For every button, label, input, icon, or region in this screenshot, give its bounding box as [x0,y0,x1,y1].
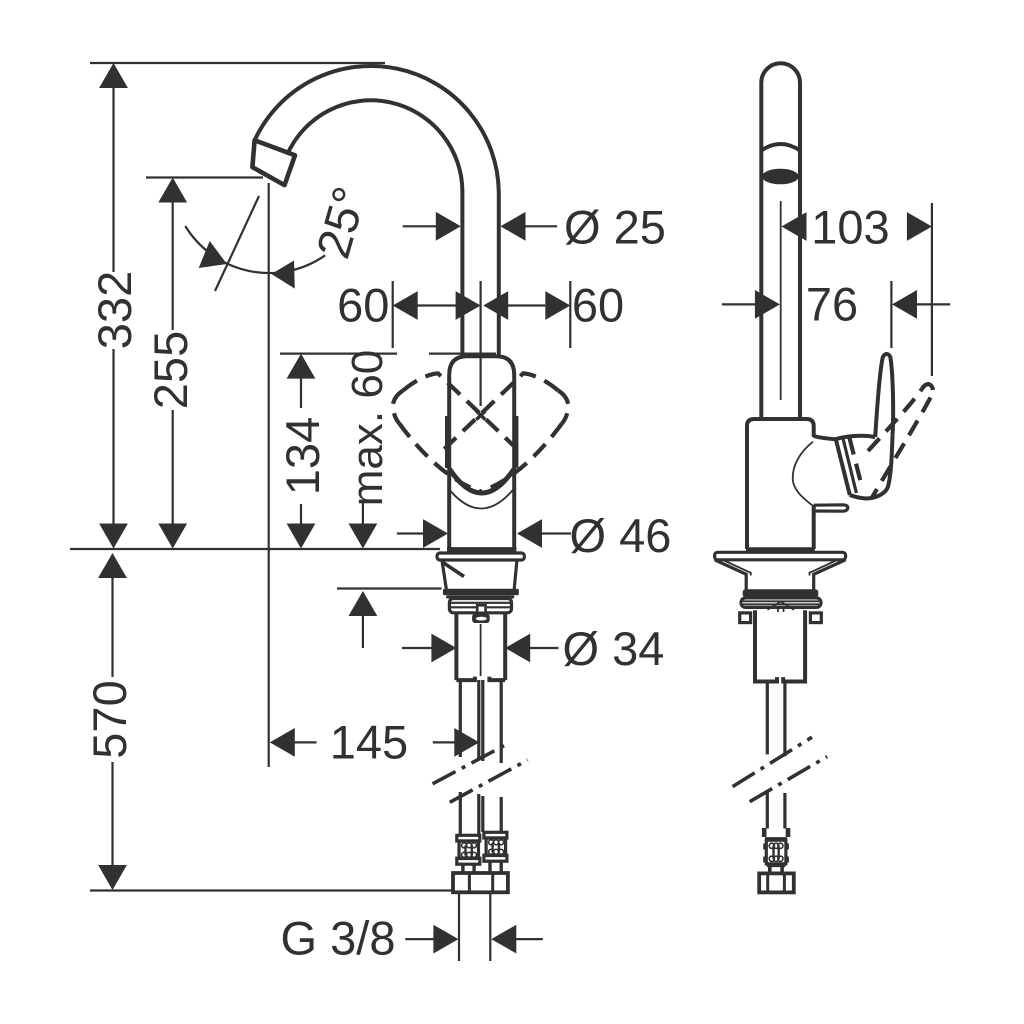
145 vertical extension line [268,183,270,767]
hose connector block front [472,614,490,623]
svg-text:G 3/8: G 3/8 [281,912,396,965]
right hose lower [483,796,501,832]
shank bottom edge with notch [456,677,505,681]
dim G38 [281,891,543,965]
dashed handle right tip cap [558,391,568,424]
dashed handle right petal top edge [444,373,558,449]
locknut front [449,599,511,613]
locknut center tab [477,605,485,613]
front body bottom edge [447,547,516,552]
left hose lower [460,792,479,835]
side fitting collar [767,864,786,867]
svg-text:60: 60 [572,279,624,332]
side escutcheon cone inner lines [724,561,836,576]
handle horn (neutral lever) [875,354,893,437]
escutcheon shine mark [443,563,464,577]
side fitting braid [763,840,789,864]
dim O25 [403,201,666,254]
dim 134 [276,354,329,549]
side locknut chevron verticals [778,608,784,612]
shank left wall front [454,613,458,680]
svg-text:max. 60: max. 60 [343,350,392,507]
side supply nut [759,873,794,892]
locknut rib 2 [451,606,476,608]
handle skirt side right (solid) [514,416,519,468]
dashed swung lever side lower edge [872,398,931,498]
deck line [70,548,440,550]
side body right wall lower [812,506,816,550]
dim 76 [722,278,950,349]
svg-text:103: 103 [811,201,889,254]
side locknut ring [741,598,821,608]
side escutcheon cone [715,560,846,590]
dashed collar echo [850,438,863,489]
locknut rib 3 [487,606,510,608]
svg-text:Ø 34: Ø 34 [563,622,665,675]
dim 570 [83,553,136,890]
front escutcheon cone [442,561,517,590]
extension line body top 134 [280,353,496,355]
dim 25deg [185,181,376,291]
supply nut pair front [453,873,508,892]
dim O34 [402,622,664,675]
dim O46 [397,509,672,562]
handle grip [836,435,893,498]
pipe centerline front [480,281,482,406]
hose end baseline [90,889,454,891]
left hose fitting flange bottom [457,858,480,864]
shank right wall front [503,613,507,680]
side escutcheon plate [715,552,846,560]
shank centerline [480,624,482,676]
svg-text:60: 60 [337,279,389,332]
right hose upper [483,680,501,763]
side fitting legs [768,867,772,874]
svg-text:570: 570 [83,680,136,758]
spout outer wall arc [255,66,499,192]
side fitting band [765,837,787,840]
dim max60 [343,350,392,648]
side fitting side tabs [762,828,767,837]
socket top edge [814,436,836,439]
extension line outlet 255 [146,176,263,178]
side locknut ring ribs [743,601,819,604]
right hose fitting flange bottom [484,855,507,861]
socket lower tab [814,505,848,511]
locknut rib 1 [451,602,510,604]
front escutcheon plate [437,553,524,560]
handle skirt bottom thick arc [450,469,515,493]
aerator sleeve [252,140,295,185]
svg-text:255: 255 [144,331,197,409]
dashed handle right bottom sweep [480,424,562,492]
side escutcheon dark band [743,589,819,597]
left hose fitting legs [461,864,464,873]
side spout bend line [761,144,800,151]
dashed handle left bottom sweep [399,424,481,492]
svg-text:145: 145 [330,716,408,769]
dashed handle left petal top edge [403,373,517,449]
spout pipe left wall [460,192,464,357]
right hose fitting flange top [484,832,507,838]
svg-text:332: 332 [88,271,141,349]
break line side upper [733,737,812,786]
handle skirt side left (solid) [445,416,450,468]
dashed swung lever side tip cap [922,384,934,397]
dashed swung lever side upper edge [868,390,922,452]
side hose lower [767,791,785,829]
dashed handle left tip cap [393,391,403,424]
handle collar line a [836,439,850,495]
handle pivot mark [476,411,485,420]
dim 145 [270,716,480,769]
right hose fitting braid [486,838,506,856]
side body belly thin line [793,442,816,508]
right hose fitting legs [488,861,491,873]
handle collar line b [843,438,857,493]
handle skirt bottom thin arc [448,488,515,509]
escutcheon base dark band [443,589,519,595]
spout pipe right wall [497,192,501,357]
dim 332 [88,63,141,549]
side hose upper [767,682,785,757]
hose connector oval [476,617,487,621]
escutcheon underside line [337,587,442,589]
svg-text:134: 134 [276,417,329,495]
left hose fitting flange top [457,835,480,841]
side pipe centerline [780,201,782,400]
side escutcheon body bottom edge [746,547,815,552]
side shank [755,610,805,681]
left hose fitting braid [459,841,479,859]
svg-text:Ø 25: Ø 25 [564,201,666,254]
side aerator ellipse [762,169,799,185]
faucet body front [449,356,514,549]
escutcheon second stripe [446,595,514,598]
break line front upper [433,743,510,784]
dim 103 [782,201,932,377]
left hose upper [460,680,479,759]
side pipe with cap [761,63,800,419]
extension line top 332 [90,62,385,64]
side locknut left tab [740,613,751,623]
dim 60 60 [337,279,624,349]
side locknut right tab [810,613,821,623]
svg-text:Ø 46: Ø 46 [570,509,672,562]
spout inner wall arc [287,100,462,192]
break line front lower [450,760,528,802]
svg-text:76: 76 [806,278,858,331]
side locknut chevron [768,602,795,610]
break line side lower [750,757,827,802]
dim 255 [144,178,197,549]
side body [747,419,814,549]
